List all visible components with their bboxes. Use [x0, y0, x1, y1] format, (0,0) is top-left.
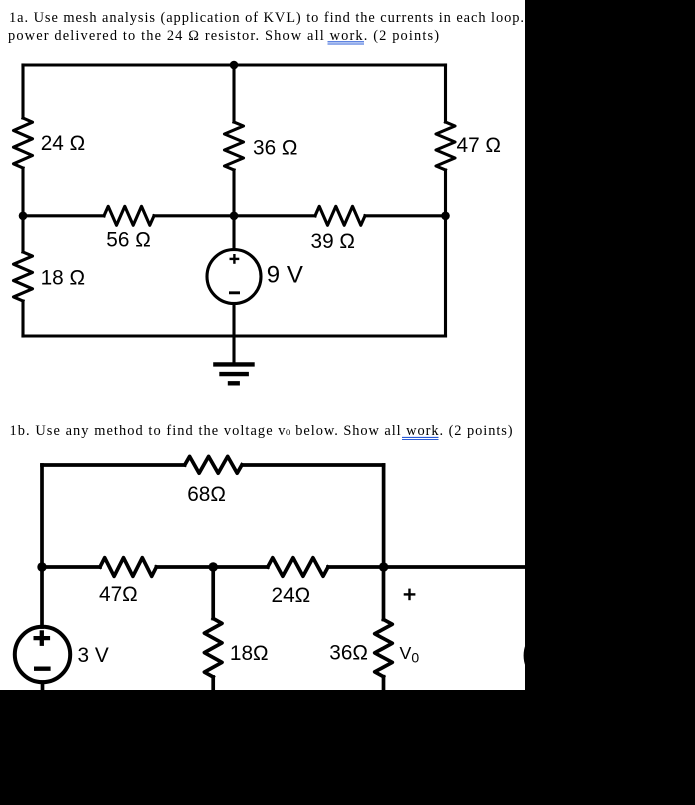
ground symbol [213, 364, 255, 383]
wire center node to source [232, 216, 235, 250]
resistor R 36ohm (1b) [375, 620, 393, 677]
plus sign of source V1 [230, 254, 240, 264]
black mask bottom band [0, 690, 695, 805]
node top-center [230, 61, 239, 70]
resistor R 36ohm [225, 122, 244, 170]
wire center branch to mid rail [232, 170, 235, 216]
wire center branch upper [232, 65, 235, 122]
wire 36ohm branch upper [382, 567, 386, 620]
resistor R 47ohm (1b) [100, 558, 156, 577]
wire mid rail left segment [23, 214, 104, 217]
svg-text:24Ω: 24Ω [272, 584, 311, 607]
wire left branch lower [21, 301, 24, 336]
grammar-check double underline under "work" (1b) [402, 437, 439, 439]
wire 36ohm branch lower [382, 677, 386, 695]
svg-text:47Ω: 47Ω [99, 583, 138, 606]
resistor R 47ohm [436, 122, 455, 170]
svg-text:39 Ω: 39 Ω [311, 230, 355, 253]
wire bottom rail [23, 334, 446, 337]
wire 18ohm branch lower [211, 677, 215, 695]
svg-text:68Ω: 68Ω [187, 483, 226, 506]
svg-text:24 Ω: 24 Ω [41, 132, 85, 155]
svg-text:0: 0 [286, 427, 290, 437]
svg-text:36 Ω: 36 Ω [253, 136, 297, 159]
minus sign of source V2 [34, 667, 51, 671]
svg-text:56 Ω: 56 Ω [106, 229, 150, 252]
heading line 1 (problem 1a) [8, 10, 524, 44]
resistor R 24ohm [14, 118, 33, 168]
voltage source V3 (mostly hidden) circle [526, 628, 581, 683]
resistor R 18ohm [14, 252, 33, 301]
plus sign polarity mark for v0 [404, 589, 416, 601]
plus sign of source V2 [34, 630, 51, 646]
resistor R 18ohm (1b) [204, 619, 222, 678]
resistor R 24ohm (1b) [268, 558, 328, 577]
wire top rail [23, 63, 446, 66]
svg-text:47 Ω: 47 Ω [457, 134, 501, 157]
junction node dots circuit 1a [19, 61, 450, 220]
node mid-center [230, 212, 239, 221]
wire right branch upper [382, 465, 386, 567]
wire below source V2 [41, 682, 45, 695]
wire mid rail seg a [42, 565, 100, 569]
wire top rail right segment [243, 463, 384, 467]
svg-text:below. Show all work. (2 point: below. Show all work. (2 points) [295, 423, 513, 439]
minus sign of source V1 [229, 291, 240, 294]
wire 18ohm branch upper [211, 567, 215, 619]
wire mid rail seg b [156, 565, 267, 569]
svg-text:9 V: 9 V [267, 261, 303, 288]
svg-text:18 Ω: 18 Ω [41, 267, 85, 290]
node mid-left [19, 212, 28, 221]
wire top rail left segment [42, 463, 185, 467]
wire left branch [40, 465, 44, 627]
svg-text:18Ω: 18Ω [230, 642, 269, 665]
node mid-left (1b) [37, 562, 46, 571]
node mid-center (1b) [209, 562, 218, 571]
resistor R 68ohm [185, 456, 242, 473]
voltage source V1 9V circle [207, 250, 261, 304]
wire mid rail seg c [328, 565, 560, 569]
grammar-check double underline under "work" (1a) [328, 42, 365, 44]
wire source to ground stem [232, 304, 235, 363]
resistor R 39ohm [315, 206, 365, 225]
resistor R 56ohm [104, 206, 154, 225]
labels circuit 1b [78, 483, 420, 667]
svg-text:1b. Use any method to find the: 1b. Use any method to find the voltage v [10, 423, 287, 439]
svg-text:1a. Use mesh analysis (applica: 1a. Use mesh analysis (application of KV… [9, 10, 524, 26]
black mask right column [525, 0, 695, 690]
wire right branch lower [444, 170, 447, 336]
wire left branch middle [21, 168, 24, 252]
wire mid rail center segment [154, 214, 315, 217]
svg-text:36Ω: 36Ω [329, 641, 368, 664]
wire mid rail right segment [365, 214, 446, 217]
voltage source V2 3V circle [15, 627, 70, 682]
node mid-right [441, 212, 450, 221]
wire left branch upper [21, 65, 24, 118]
node mid-right (1b) [379, 562, 388, 571]
svg-text:power delivered to the 24 Ω re: power delivered to the 24 Ω resistor. Sh… [8, 28, 439, 44]
heading line (problem 1b) [10, 423, 513, 439]
svg-text:3 V: 3 V [78, 644, 109, 667]
svg-text:V0: V0 [400, 643, 420, 665]
junction node dots circuit 1b [37, 562, 388, 571]
wire right branch upper [444, 65, 447, 122]
labels circuit 1a [41, 132, 501, 290]
